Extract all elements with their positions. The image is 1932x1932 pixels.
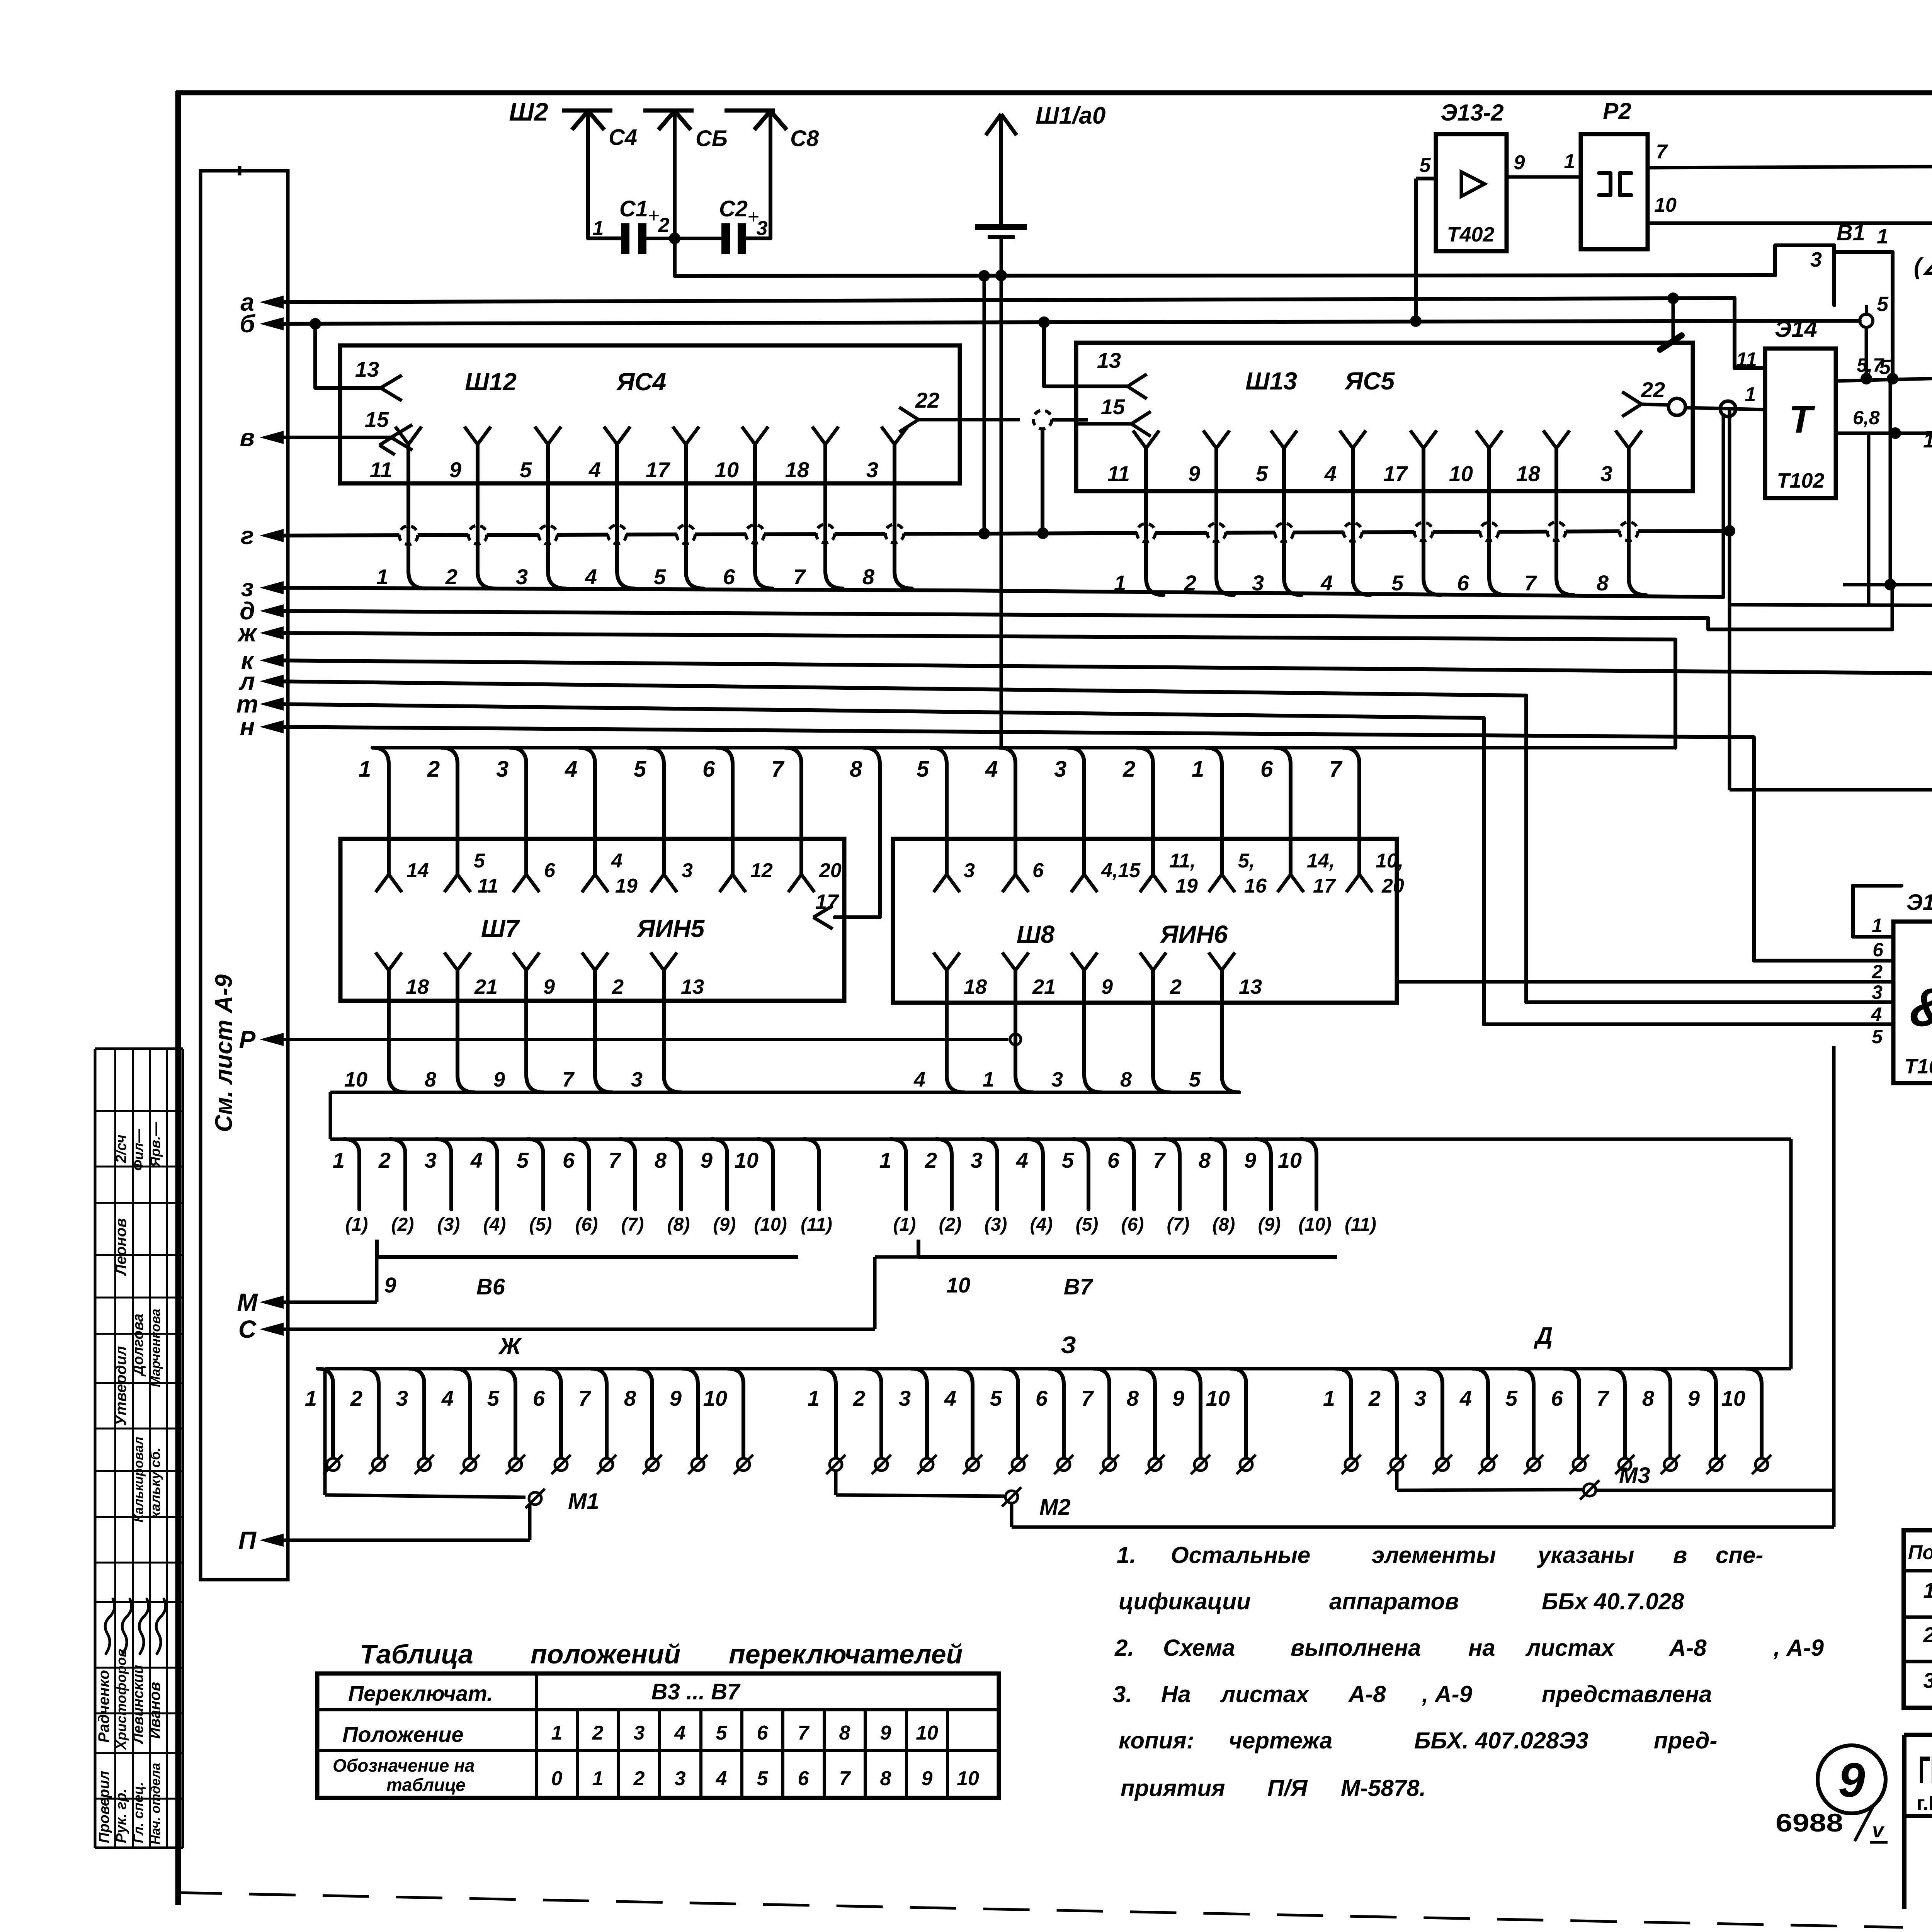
svg-text:1: 1 xyxy=(983,1068,994,1091)
hanging column 2 to ЯИН6 pin xyxy=(1122,748,1166,892)
svg-text:13: 13 xyxy=(681,975,704,998)
svg-text:4: 4 xyxy=(913,1068,925,1091)
svg-text:ЯИН6: ЯИН6 xyxy=(1160,920,1228,948)
hanging column 4 to ЯИН6 pin xyxy=(985,748,1029,892)
ЯС5 bottom pin 17 / column 5 to bus з xyxy=(1383,430,1441,595)
svg-text:7: 7 xyxy=(793,565,806,589)
Ж contact 6 xyxy=(533,1369,571,1474)
svg-text:9: 9 xyxy=(1188,461,1200,486)
svg-text:5,: 5, xyxy=(1238,850,1255,872)
ЯС5 bottom pin 18 / column 7 to bus з xyxy=(1516,430,1574,595)
svg-text:15: 15 xyxy=(365,407,389,432)
wire Э11.5 down to М3 bus xyxy=(1832,1046,1836,1490)
svg-text:3: 3 xyxy=(516,565,528,589)
З contact 8 xyxy=(1127,1369,1165,1474)
svg-text:18: 18 xyxy=(1516,461,1541,486)
svg-text:(6): (6) xyxy=(575,1214,598,1235)
parts list table grid xyxy=(1904,1530,1932,1708)
svg-text:ГИПРОСТРОЙДОРМАШ: ГИПРОСТРОЙДОРМАШ xyxy=(1918,1748,1932,1792)
svg-text:выполнена: выполнена xyxy=(1291,1635,1421,1661)
svg-text:аппаратов: аппаратов xyxy=(1329,1588,1459,1614)
svg-text:(2): (2) xyxy=(391,1214,414,1235)
svg-text:(10): (10) xyxy=(1298,1214,1331,1235)
svg-text:7: 7 xyxy=(771,757,785,782)
wire to Н4 xyxy=(1730,605,1932,605)
svg-text:Поз.: Поз. xyxy=(1908,1541,1932,1564)
svg-text:4: 4 xyxy=(985,757,998,782)
svg-text:(∠ 1000): (∠ 1000) xyxy=(1914,253,1932,279)
svg-text:11: 11 xyxy=(478,875,498,897)
svg-text:1: 1 xyxy=(1923,1578,1932,1602)
svg-text:9: 9 xyxy=(701,1148,713,1172)
В6 contact column 9 xyxy=(701,1139,727,1209)
svg-text:Остальные: Остальные xyxy=(1171,1542,1310,1568)
svg-text:1: 1 xyxy=(1923,429,1932,452)
hanging column 2 to ЯИН5 pin xyxy=(427,748,471,892)
svg-text:12: 12 xyxy=(750,859,773,882)
svg-text:5: 5 xyxy=(1420,154,1431,177)
svg-text:б: б xyxy=(240,310,256,338)
svg-text:6: 6 xyxy=(1457,571,1469,595)
check mark on ЯС5 top xyxy=(1660,335,1682,350)
svg-text:4: 4 xyxy=(1459,1386,1472,1410)
svg-text:2: 2 xyxy=(378,1148,391,1172)
svg-text:Т402: Т402 xyxy=(1447,223,1494,246)
svg-text:Нач. отдела: Нач. отдела xyxy=(148,1763,163,1845)
hanging column 7 to ЯИН5 pin xyxy=(771,748,815,892)
wire Э11 pin2 from ЯИН6 xyxy=(1397,980,1893,984)
svg-text:(7): (7) xyxy=(621,1214,644,1235)
svg-text:6: 6 xyxy=(544,859,556,882)
jack М1 and wiring xyxy=(270,1369,599,1540)
Д contact 9 xyxy=(1688,1369,1726,1474)
svg-text:1: 1 xyxy=(1872,915,1883,936)
ЯС5 pin 15 stub xyxy=(1078,395,1151,436)
svg-text:Переключат.: Переключат. xyxy=(348,1681,493,1706)
В6 contact column 6 xyxy=(563,1139,589,1209)
svg-text:11,: 11, xyxy=(1169,850,1196,872)
hanging column 6 to ЯИН6 pin xyxy=(1260,748,1304,892)
svg-text:2: 2 xyxy=(633,1767,645,1790)
Ж/З/Д row bus wire xyxy=(325,1367,1791,1371)
svg-text:1: 1 xyxy=(879,1148,891,1172)
svg-text:(1): (1) xyxy=(893,1214,916,1235)
ground/Ш1-а0 arrow symbol xyxy=(975,114,1027,237)
node л label and arrow xyxy=(238,667,284,695)
svg-text:5: 5 xyxy=(517,1148,529,1172)
svg-text:таблице: таблице xyxy=(386,1775,466,1795)
hanging column 4 to ЯИН5 pin xyxy=(565,748,608,892)
ЯС5 pin 22 stub and wire to Э14.1 xyxy=(1622,378,1668,417)
svg-text:5: 5 xyxy=(1391,571,1404,595)
title block frame xyxy=(1904,1735,1932,1928)
svg-text:5: 5 xyxy=(487,1386,500,1410)
wire в to ЯС4.15 xyxy=(270,436,391,439)
svg-text:4: 4 xyxy=(1324,461,1337,486)
З contact 6 xyxy=(1036,1369,1073,1474)
svg-text:Ш7: Ш7 xyxy=(481,915,520,942)
switch В1 xyxy=(1775,220,1893,378)
svg-text:2: 2 xyxy=(658,214,670,236)
Э14 pins 5,7 output wire xyxy=(1836,354,1932,381)
ЯС4 bottom pin 9 / column 2 to bus з xyxy=(445,427,495,589)
В7 contact column 6 xyxy=(1107,1139,1134,1209)
svg-text:Ш2: Ш2 xyxy=(509,97,548,126)
svg-text:Ш12: Ш12 xyxy=(465,368,517,396)
svg-text:9: 9 xyxy=(670,1386,682,1410)
В6 contact column 8 xyxy=(655,1139,681,1209)
svg-text:4: 4 xyxy=(944,1386,956,1410)
svg-text:2: 2 xyxy=(1923,1622,1932,1647)
svg-text:10: 10 xyxy=(957,1767,979,1790)
svg-text:9: 9 xyxy=(1101,975,1113,998)
svg-text:ББх 40.7.028: ББх 40.7.028 xyxy=(1542,1588,1684,1614)
wire Р to ЯИН6 pin21 tap xyxy=(270,1034,1021,1045)
parts row R1 Резистор xyxy=(1923,1621,1932,1647)
svg-text:8: 8 xyxy=(425,1068,436,1091)
wire Э14 5,7 down to Н5 feed xyxy=(1889,379,1892,585)
svg-text:9: 9 xyxy=(1244,1148,1256,1172)
svg-text:17: 17 xyxy=(646,457,671,482)
З contact 4 xyxy=(944,1369,982,1474)
svg-text:5: 5 xyxy=(917,757,929,782)
svg-text:18: 18 xyxy=(406,975,429,998)
svg-text:v: v xyxy=(1872,1819,1885,1842)
svg-text:ЯС4: ЯС4 xyxy=(616,368,666,396)
svg-text:11: 11 xyxy=(370,457,392,482)
Ж contact 4 xyxy=(441,1369,480,1474)
svg-text:21: 21 xyxy=(474,975,498,998)
З contact 2 xyxy=(853,1369,891,1474)
З contact 10 xyxy=(1206,1369,1256,1474)
В7 contact column 10 xyxy=(1278,1139,1316,1209)
В6 contact column 1 xyxy=(333,1139,359,1209)
wire С to В7 xyxy=(270,1257,918,1329)
svg-text:10: 10 xyxy=(703,1386,727,1410)
wire ж bus to hanging columns xyxy=(270,633,1675,748)
svg-text:в: в xyxy=(1673,1542,1687,1568)
wire б across to В1.5 xyxy=(270,321,1860,324)
svg-text:3: 3 xyxy=(899,1386,911,1410)
svg-text:(9): (9) xyxy=(713,1214,736,1235)
junction dots on Э14 5,7 wire xyxy=(1861,373,1898,384)
svg-text:4: 4 xyxy=(1320,571,1333,595)
hanging columns bus wire xyxy=(373,746,1675,750)
svg-text:8: 8 xyxy=(1120,1068,1132,1091)
svg-text:1: 1 xyxy=(551,1722,563,1744)
svg-text:(8): (8) xyxy=(667,1214,690,1235)
svg-text:20: 20 xyxy=(819,859,842,882)
ЯС5 bottom pin 11 / column 1 to bus з xyxy=(1107,430,1163,595)
svg-text:9: 9 xyxy=(384,1273,396,1297)
svg-text:Утвердил: Утвердил xyxy=(112,1346,129,1426)
Э14 pin 11 wire from а xyxy=(1735,298,1765,371)
б branch to ЯС5.13 xyxy=(1038,316,1128,386)
В6 contact column 11 xyxy=(804,1139,819,1209)
svg-text:1: 1 xyxy=(592,1767,604,1790)
wire Ш2:СБ to node 2 xyxy=(673,111,677,238)
hanging column 3 to ЯИН5 pin xyxy=(496,748,539,892)
node Р label and arrow xyxy=(239,1026,284,1053)
svg-text:А-8: А-8 xyxy=(1348,1681,1386,1707)
svg-text:Леонов: Леонов xyxy=(112,1218,129,1276)
svg-text:Христофоров: Христофоров xyxy=(113,1649,129,1750)
svg-text:3: 3 xyxy=(964,859,975,882)
svg-text:9: 9 xyxy=(1514,151,1525,174)
Д contact 3 xyxy=(1414,1369,1452,1474)
svg-text:22: 22 xyxy=(915,388,939,412)
svg-text:чертежа: чертежа xyxy=(1229,1728,1332,1753)
wire г bus xyxy=(270,525,1735,539)
svg-text:н: н xyxy=(240,713,255,741)
hop circle on ЯС5.22 wire xyxy=(1668,398,1685,415)
svg-text:14,: 14, xyxy=(1307,850,1335,872)
svg-text:(9): (9) xyxy=(1258,1214,1281,1235)
ЯС4 bottom pin 3 / column 8 to bus з xyxy=(862,427,912,589)
svg-text:9: 9 xyxy=(880,1722,891,1744)
positions table texts xyxy=(333,1679,979,1795)
svg-text:Рук. гр.: Рук. гр. xyxy=(113,1789,129,1843)
svg-text:13: 13 xyxy=(1239,975,1262,998)
wire continues to Э14 pin 1 xyxy=(1685,408,1765,410)
svg-text:6: 6 xyxy=(1872,939,1884,961)
svg-text:М1: М1 xyxy=(568,1489,599,1514)
svg-text:7: 7 xyxy=(1329,757,1343,782)
svg-text:, А-9: , А-9 xyxy=(1422,1681,1473,1707)
svg-text:(4): (4) xyxy=(1030,1214,1053,1235)
svg-text:3: 3 xyxy=(1051,1068,1063,1091)
sheet number circle 9 xyxy=(1818,1745,1886,1813)
svg-text:16: 16 xyxy=(1244,875,1267,897)
svg-text:5: 5 xyxy=(520,457,532,482)
notes paragraph xyxy=(1113,1542,1824,1801)
svg-text:&: & xyxy=(1909,977,1932,1037)
svg-text:Д: Д xyxy=(1534,1323,1553,1349)
svg-text:5: 5 xyxy=(474,850,485,872)
wire a0 from capacitors to В1.3 xyxy=(675,238,1775,276)
wire а to Э14.11 xyxy=(270,293,1735,342)
svg-text:Гл. спец.: Гл. спец. xyxy=(130,1782,146,1843)
svg-text:7: 7 xyxy=(1153,1148,1166,1172)
svg-text:2: 2 xyxy=(445,565,457,589)
svg-text:9: 9 xyxy=(1172,1386,1184,1410)
svg-text:2: 2 xyxy=(1871,961,1883,983)
ЯС4 bottom pin 17 / column 5 to bus з xyxy=(646,427,703,589)
wire Ш2:С8 to C2.3 xyxy=(745,111,770,238)
ЯС4 bottom pin 11 / column 1 to bus з xyxy=(370,427,426,589)
svg-text:Левинский: Левинский xyxy=(130,1665,146,1745)
svg-text:М3: М3 xyxy=(1619,1463,1650,1488)
ЯС4 bottom pin 5 / column 3 to bus з xyxy=(516,427,565,589)
svg-text:7: 7 xyxy=(1656,141,1668,163)
ЯИН6 bottom pin 21 / column to collector xyxy=(1002,952,1056,1092)
В6 contact column 2 xyxy=(378,1139,405,1209)
ЯИН6 bottom pin 9 / column to collector xyxy=(1071,952,1113,1092)
wire Р2.7 to Л1.10 xyxy=(1648,139,1932,179)
svg-text:3: 3 xyxy=(1810,248,1822,271)
document code 6988/v xyxy=(1776,1804,1888,1842)
svg-text:переключателей: переключателей xyxy=(729,1639,963,1669)
svg-text:С: С xyxy=(238,1315,257,1343)
svg-text:7: 7 xyxy=(578,1386,592,1410)
ЯИН6 bottom pin 18 / column to collector xyxy=(934,952,987,1092)
svg-text:5: 5 xyxy=(1062,1148,1074,1172)
jack М3 and wiring xyxy=(1397,1463,1834,1527)
svg-text:на: на xyxy=(1468,1635,1495,1661)
В6/В7 row bus wire xyxy=(330,1138,1791,1141)
svg-text:Т107: Т107 xyxy=(1904,1055,1932,1078)
vertical from ЯС4.22 hop down to г xyxy=(1041,429,1044,533)
ЯИН5 bottom pin 21 / column to collector xyxy=(444,952,498,1092)
svg-text:М: М xyxy=(237,1288,258,1316)
svg-text:Иванов: Иванов xyxy=(146,1682,163,1739)
svg-text:копия:: копия: xyxy=(1119,1728,1194,1753)
svg-text:5: 5 xyxy=(716,1722,728,1744)
hops on line г at ЯС5 columns xyxy=(1137,518,1638,546)
svg-text:1: 1 xyxy=(808,1386,820,1410)
svg-text:21: 21 xyxy=(1032,975,1056,998)
svg-text:Фил—: Фил— xyxy=(130,1129,146,1171)
svg-text:11: 11 xyxy=(1107,461,1130,486)
svg-text:(11): (11) xyxy=(801,1214,832,1235)
svg-text:6988: 6988 xyxy=(1776,1808,1843,1837)
svg-text:3: 3 xyxy=(1872,981,1883,1003)
svg-text:3: 3 xyxy=(1923,1668,1932,1692)
svg-text:1: 1 xyxy=(1564,150,1575,173)
Э11 pin 1 loop wire xyxy=(1853,886,1901,937)
svg-text:9: 9 xyxy=(1688,1386,1700,1410)
Ж contact 7 xyxy=(578,1369,616,1474)
svg-text:А-8: А-8 xyxy=(1668,1635,1707,1661)
svg-text:элементы: элементы xyxy=(1372,1542,1496,1568)
ЯС5 bottom pin 3 / column 8 to bus з xyxy=(1597,430,1646,595)
svg-text:9: 9 xyxy=(493,1068,505,1091)
svg-text:10: 10 xyxy=(735,1148,759,1172)
svg-text:(3): (3) xyxy=(437,1214,460,1235)
relay finder block Ш13 ЯС5 xyxy=(1076,343,1693,491)
parts row R2 Резистор xyxy=(1923,1667,1932,1693)
svg-text:З: З xyxy=(1061,1332,1076,1359)
В1 test point 5 circle on б wire xyxy=(1860,293,1889,378)
ЯИН5 bottom pin 9 / column to collector xyxy=(513,952,555,1092)
ЯИН6 bottom pin 2 / column to collector xyxy=(1140,952,1182,1092)
svg-text:10: 10 xyxy=(916,1722,938,1744)
svg-text:цификации: цификации xyxy=(1119,1588,1251,1614)
ЯИН5 bottom pin 18 / column to collector xyxy=(376,952,429,1092)
svg-text:8: 8 xyxy=(850,757,862,782)
svg-text:3: 3 xyxy=(496,757,509,782)
node з label and arrow xyxy=(241,574,284,602)
svg-text:С1: С1 xyxy=(619,196,648,221)
svg-text:4: 4 xyxy=(1016,1148,1028,1172)
diode matrix block Ш8 ЯИН6 xyxy=(893,839,1397,1003)
ЯС4 pin 13 stub xyxy=(355,357,402,401)
svg-text:3: 3 xyxy=(425,1148,437,1172)
З contact 5 xyxy=(990,1369,1028,1474)
Ж contact 5 xyxy=(487,1369,525,1474)
ЯС5 pin 13 stub xyxy=(1097,348,1147,399)
hop on ЯС4 pin22 wire xyxy=(1033,410,1052,429)
svg-text:18: 18 xyxy=(964,975,987,998)
З contact 3 xyxy=(899,1369,937,1474)
diode matrix block Ш7 ЯИН5 xyxy=(340,839,844,1001)
svg-text:Ш1/а0: Ш1/а0 xyxy=(1036,102,1105,129)
svg-text:1.: 1. xyxy=(1117,1542,1136,1568)
ЯС5 bottom pin 4 / column 4 to bus з xyxy=(1320,430,1370,595)
node М label and arrow xyxy=(237,1288,284,1316)
trigger Э14 (Т Т102) xyxy=(1765,316,1836,498)
wire з bus collector xyxy=(270,588,1723,597)
svg-text:в: в xyxy=(240,423,255,451)
В6/В7 loop to Ж/З/Д bus xyxy=(1789,1139,1793,1369)
svg-text:1: 1 xyxy=(1745,383,1756,406)
node ж label and arrow xyxy=(237,619,284,647)
ЯИН5 bottom pin 13 / column to collector xyxy=(651,952,704,1092)
ЯС4 bottom pin 18 / column 7 to bus з xyxy=(785,427,843,589)
svg-text:приятия: приятия xyxy=(1121,1775,1225,1801)
svg-text:Ш8: Ш8 xyxy=(1017,920,1055,948)
svg-text:13: 13 xyxy=(355,357,379,381)
svg-text:6: 6 xyxy=(563,1148,575,1172)
svg-text:17: 17 xyxy=(1383,461,1408,486)
svg-text:4,15: 4,15 xyxy=(1101,859,1141,882)
ЯС4 pin22 wire continues xyxy=(1052,418,1088,422)
Ж contact 3 xyxy=(396,1369,434,1474)
Э11 pin labels xyxy=(1871,939,1884,1048)
svg-text:5: 5 xyxy=(634,757,646,782)
wire г-drop to Н3 line xyxy=(1730,531,1932,790)
svg-text:3: 3 xyxy=(866,457,878,482)
hops on line г at ЯС4 columns xyxy=(399,520,904,548)
Д contact 1 xyxy=(1323,1369,1361,1474)
З contact 7 xyxy=(1081,1369,1119,1474)
svg-text:(10): (10) xyxy=(754,1214,787,1235)
svg-text:5: 5 xyxy=(1872,1026,1883,1048)
svg-text:листах: листах xyxy=(1220,1681,1310,1707)
svg-text:С4: С4 xyxy=(609,125,637,150)
svg-text:1: 1 xyxy=(1323,1386,1335,1410)
svg-text:1: 1 xyxy=(376,565,388,589)
wire д/5,7 to Н5 (top) xyxy=(1843,579,1932,604)
capacitor C1 xyxy=(593,196,675,254)
svg-text:8: 8 xyxy=(624,1386,636,1410)
svg-text:8: 8 xyxy=(862,565,875,589)
ЯС4 pin 15 stub xyxy=(365,407,412,455)
hanging column 1 to ЯИН5 pin xyxy=(359,748,402,892)
ЯИН5 pin 17 stub xyxy=(813,890,840,929)
Д contact 8 xyxy=(1642,1369,1680,1474)
Д contact 10 xyxy=(1721,1369,1771,1474)
svg-text:спе-: спе- xyxy=(1716,1542,1763,1568)
svg-text:7: 7 xyxy=(562,1068,575,1091)
node н label and arrow xyxy=(240,713,284,741)
svg-text:6: 6 xyxy=(1032,859,1044,882)
svg-text:6: 6 xyxy=(798,1767,810,1790)
svg-text:ЯС5: ЯС5 xyxy=(1344,367,1395,395)
svg-text:Э11: Э11 xyxy=(1906,890,1932,915)
svg-text:2: 2 xyxy=(925,1148,937,1172)
В6 contact column 5 xyxy=(517,1139,543,1209)
svg-text:10: 10 xyxy=(1206,1386,1230,1410)
svg-text:Долгова: Долгова xyxy=(130,1314,146,1377)
В7 contact column 8 xyxy=(1199,1139,1225,1209)
wire М to В6 xyxy=(270,1257,377,1302)
svg-text:6: 6 xyxy=(723,565,735,589)
svg-text:Ж: Ж xyxy=(498,1333,522,1360)
svg-text:(3): (3) xyxy=(985,1214,1007,1235)
svg-text:5: 5 xyxy=(1877,293,1889,316)
svg-text:Проверил: Проверил xyxy=(96,1771,112,1843)
